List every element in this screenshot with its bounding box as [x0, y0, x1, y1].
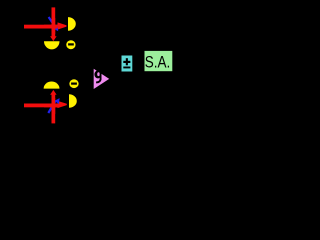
- svg-text:S.A.: S.A.: [145, 53, 171, 72]
